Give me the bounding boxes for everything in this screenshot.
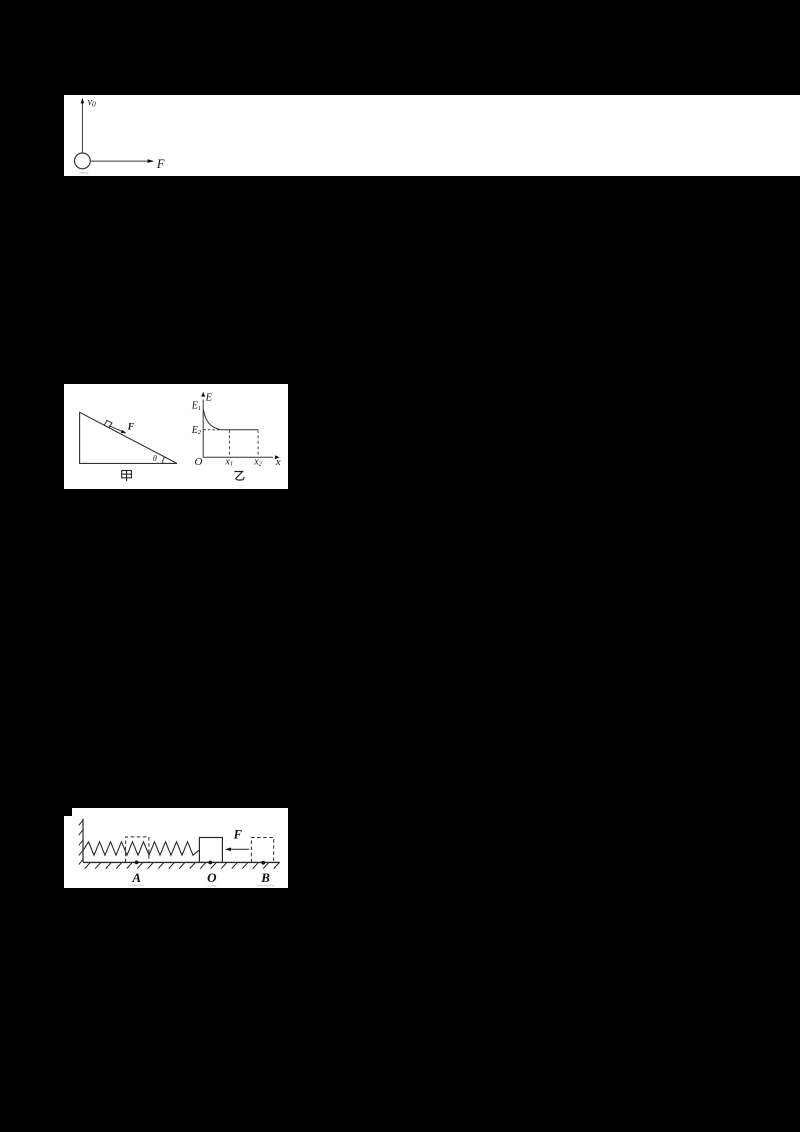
F arrowhead: [225, 848, 231, 852]
incline triangle: [80, 412, 177, 463]
dot B: [261, 861, 265, 865]
dashed x2 line: [257, 430, 259, 457]
decay curve: [203, 410, 220, 430]
floor hatch: [85, 863, 279, 869]
flat E2 line: [221, 429, 259, 431]
dashed E2 lead: [203, 429, 220, 431]
F arrow wire: [90, 160, 148, 162]
svg-text:O: O: [207, 870, 217, 885]
F arrowhead: [148, 159, 155, 163]
angle arc: [163, 457, 165, 464]
svg-text:A: A: [131, 870, 141, 885]
ball: [75, 153, 91, 169]
F arrow wire: [229, 848, 249, 850]
dot A: [135, 861, 139, 865]
x axis: [203, 456, 273, 458]
figure 1 panel: [64, 95, 800, 176]
label yi (CJK drawn): [234, 472, 244, 481]
force arrow on slope: [109, 426, 124, 432]
label jia (CJK drawn): [122, 471, 132, 482]
dot O: [208, 861, 212, 865]
wall hatch: [79, 820, 83, 865]
solid block at O: [199, 838, 222, 863]
figure 3 panel main: [64, 816, 288, 888]
v0 arrowhead: [81, 98, 85, 104]
svg-text:F: F: [233, 827, 243, 841]
svg-text:B: B: [260, 870, 270, 885]
dashed block at B: [251, 838, 273, 863]
figure 3 panel notch: [72, 808, 288, 816]
figure 2 panel: [64, 384, 288, 489]
floor: [83, 861, 280, 863]
v0 arrow wire: [81, 102, 83, 153]
faint artifact bars: [129, 885, 144, 887]
E axis: [202, 400, 204, 458]
wall: [82, 819, 84, 863]
spring: [83, 842, 199, 855]
block on slope: [104, 420, 112, 428]
dashed x1 line: [228, 430, 230, 457]
dashed block at A: [126, 837, 149, 862]
faint artifact bar under ball: [80, 172, 89, 174]
